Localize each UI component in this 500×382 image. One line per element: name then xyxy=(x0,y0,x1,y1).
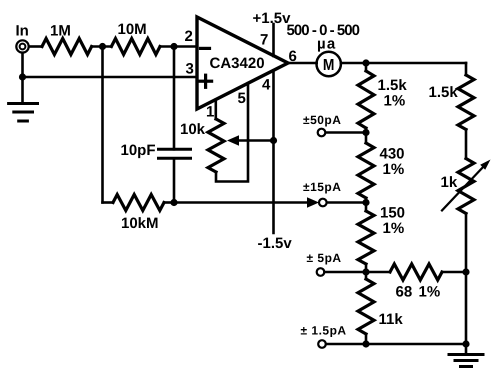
resistor 11k xyxy=(358,279,374,334)
wire 430 to node F xyxy=(365,198,368,211)
arrow into 15pA terminal xyxy=(307,197,319,207)
node E junction dot xyxy=(362,129,369,136)
wire 10M to op-amp pin 2 xyxy=(160,45,197,48)
terminal 1.5pA circle xyxy=(318,340,326,348)
svg-text:500 - 0 - 500: 500 - 0 - 500 xyxy=(287,22,361,39)
node C junction dot xyxy=(170,199,177,206)
wire corner to 10kM left xyxy=(103,201,114,204)
svg-text:10pF: 10pF xyxy=(121,142,156,159)
node I junction dot xyxy=(362,340,369,347)
wire In down to ground node xyxy=(21,53,24,77)
svg-text:1: 1 xyxy=(206,104,214,121)
wire terminal 15pA to node F xyxy=(327,201,366,204)
svg-text:10M: 10M xyxy=(118,21,147,38)
node A junction dot xyxy=(99,43,106,50)
node H junction dot xyxy=(462,268,469,275)
wire terminal 5pA to node G xyxy=(325,271,367,274)
terminal 50pA circle xyxy=(318,129,326,137)
wire 11k to node I xyxy=(365,334,368,344)
wire 10kM right to node C xyxy=(164,201,174,204)
1k pot diagonal arrow xyxy=(442,160,491,211)
potentiometer 10k xyxy=(208,119,224,172)
minus sign pin 2 xyxy=(201,47,210,50)
wire 68 to right chain xyxy=(442,271,466,274)
node B junction dot xyxy=(170,43,177,50)
terminal 5pA circle xyxy=(317,268,325,276)
svg-text:1.5k: 1.5k xyxy=(378,77,408,94)
node G junction dot xyxy=(362,268,369,275)
plus sign pin 3 xyxy=(200,75,212,87)
wire 1k pot to node H xyxy=(465,214,468,273)
svg-text:1%: 1% xyxy=(419,284,441,301)
wire meter to right chain xyxy=(341,62,466,65)
pot 10k wiper arrow xyxy=(227,135,274,145)
resistor 1.5k 1% xyxy=(358,71,374,128)
svg-text:± 5pA: ± 5pA xyxy=(307,251,342,265)
wiper junction dot on pin 4 wire xyxy=(270,137,277,144)
node J junction dot xyxy=(462,340,469,347)
resistor 10M xyxy=(111,39,160,55)
ground (output) xyxy=(449,344,483,367)
op-amp output wire pin 6 xyxy=(287,62,317,65)
resistor 1.5k right xyxy=(458,75,474,130)
resistor 150 1% xyxy=(358,211,374,264)
svg-text:±15pA: ±15pA xyxy=(303,180,341,194)
meter M xyxy=(317,52,341,76)
svg-text:1%: 1% xyxy=(383,220,405,237)
svg-text:10kM: 10kM xyxy=(121,215,159,232)
terminal 15pA circle xyxy=(319,199,327,207)
wire node D down xyxy=(365,63,368,71)
right chain top wire down xyxy=(465,63,468,75)
input terminal In xyxy=(16,40,28,52)
1.5k 1% value label xyxy=(378,77,408,110)
capacitor 10pF xyxy=(159,149,191,158)
svg-text:1M: 1M xyxy=(50,23,71,40)
wire 150 to node G xyxy=(365,264,368,279)
node F junction dot xyxy=(362,199,369,206)
wire node C to 15pA arrow xyxy=(174,201,308,204)
svg-text:2: 2 xyxy=(185,28,193,45)
430 1% value label xyxy=(380,146,405,179)
resistor 68 1% xyxy=(390,264,442,280)
svg-text:CA3420: CA3420 xyxy=(210,55,265,72)
pin 4 supply wire xyxy=(272,70,275,233)
potentiometer 1k xyxy=(458,159,474,214)
150 1% value label xyxy=(380,205,405,238)
svg-text:1.5k: 1.5k xyxy=(429,84,459,101)
wire capacitor to node C xyxy=(173,158,176,202)
resistor 1M xyxy=(42,39,92,55)
wire node A down to 10kM xyxy=(101,47,104,203)
svg-text:11k: 11k xyxy=(379,311,404,328)
svg-text:1%: 1% xyxy=(383,161,405,178)
svg-text:10k: 10k xyxy=(180,121,206,138)
svg-text:± 1.5pA: ± 1.5pA xyxy=(301,324,347,338)
wire to node E xyxy=(365,128,368,143)
wire terminal 1.5pA to node I xyxy=(326,343,366,346)
svg-text:430: 430 xyxy=(380,146,405,163)
node D junction dot xyxy=(362,59,369,66)
svg-text:7: 7 xyxy=(260,32,268,49)
svg-text:-1.5v: -1.5v xyxy=(258,235,293,252)
svg-text:150: 150 xyxy=(380,205,405,222)
svg-text:3: 3 xyxy=(186,61,194,78)
wire 1.5k to 1k pot xyxy=(465,130,468,159)
bottom wire node I to ground xyxy=(366,343,466,346)
pin 7 supply wire xyxy=(272,24,275,56)
svg-text:5: 5 xyxy=(238,90,246,107)
svg-text:4: 4 xyxy=(262,77,271,94)
wire terminal 50pA to node E xyxy=(327,131,367,134)
wire node H to node J xyxy=(465,272,468,344)
ground (input) xyxy=(9,77,38,121)
resistor 10kM xyxy=(113,195,164,211)
svg-text:±50pA: ±50pA xyxy=(303,113,341,127)
wire node B down to capacitor xyxy=(173,47,176,150)
pot 10k bottom wire to pin 5 xyxy=(216,83,248,181)
wire node G to 68 xyxy=(366,271,390,274)
op-amp U1 CA3420 xyxy=(197,17,288,109)
svg-text:+1.5v: +1.5v xyxy=(253,10,292,27)
svg-text:M: M xyxy=(323,57,335,74)
resistor 430 1% xyxy=(358,143,374,198)
svg-text:1k: 1k xyxy=(441,174,458,191)
ground node junction dot xyxy=(19,73,26,80)
svg-text:68: 68 xyxy=(396,284,413,301)
svg-text:In: In xyxy=(16,23,29,40)
wire ground node to op-amp pin 3 xyxy=(23,76,198,79)
wire 1M to node A xyxy=(92,45,112,48)
svg-text:1%: 1% xyxy=(384,93,406,110)
wire In to R 1M xyxy=(30,45,43,48)
pin 1 wire xyxy=(215,100,218,119)
